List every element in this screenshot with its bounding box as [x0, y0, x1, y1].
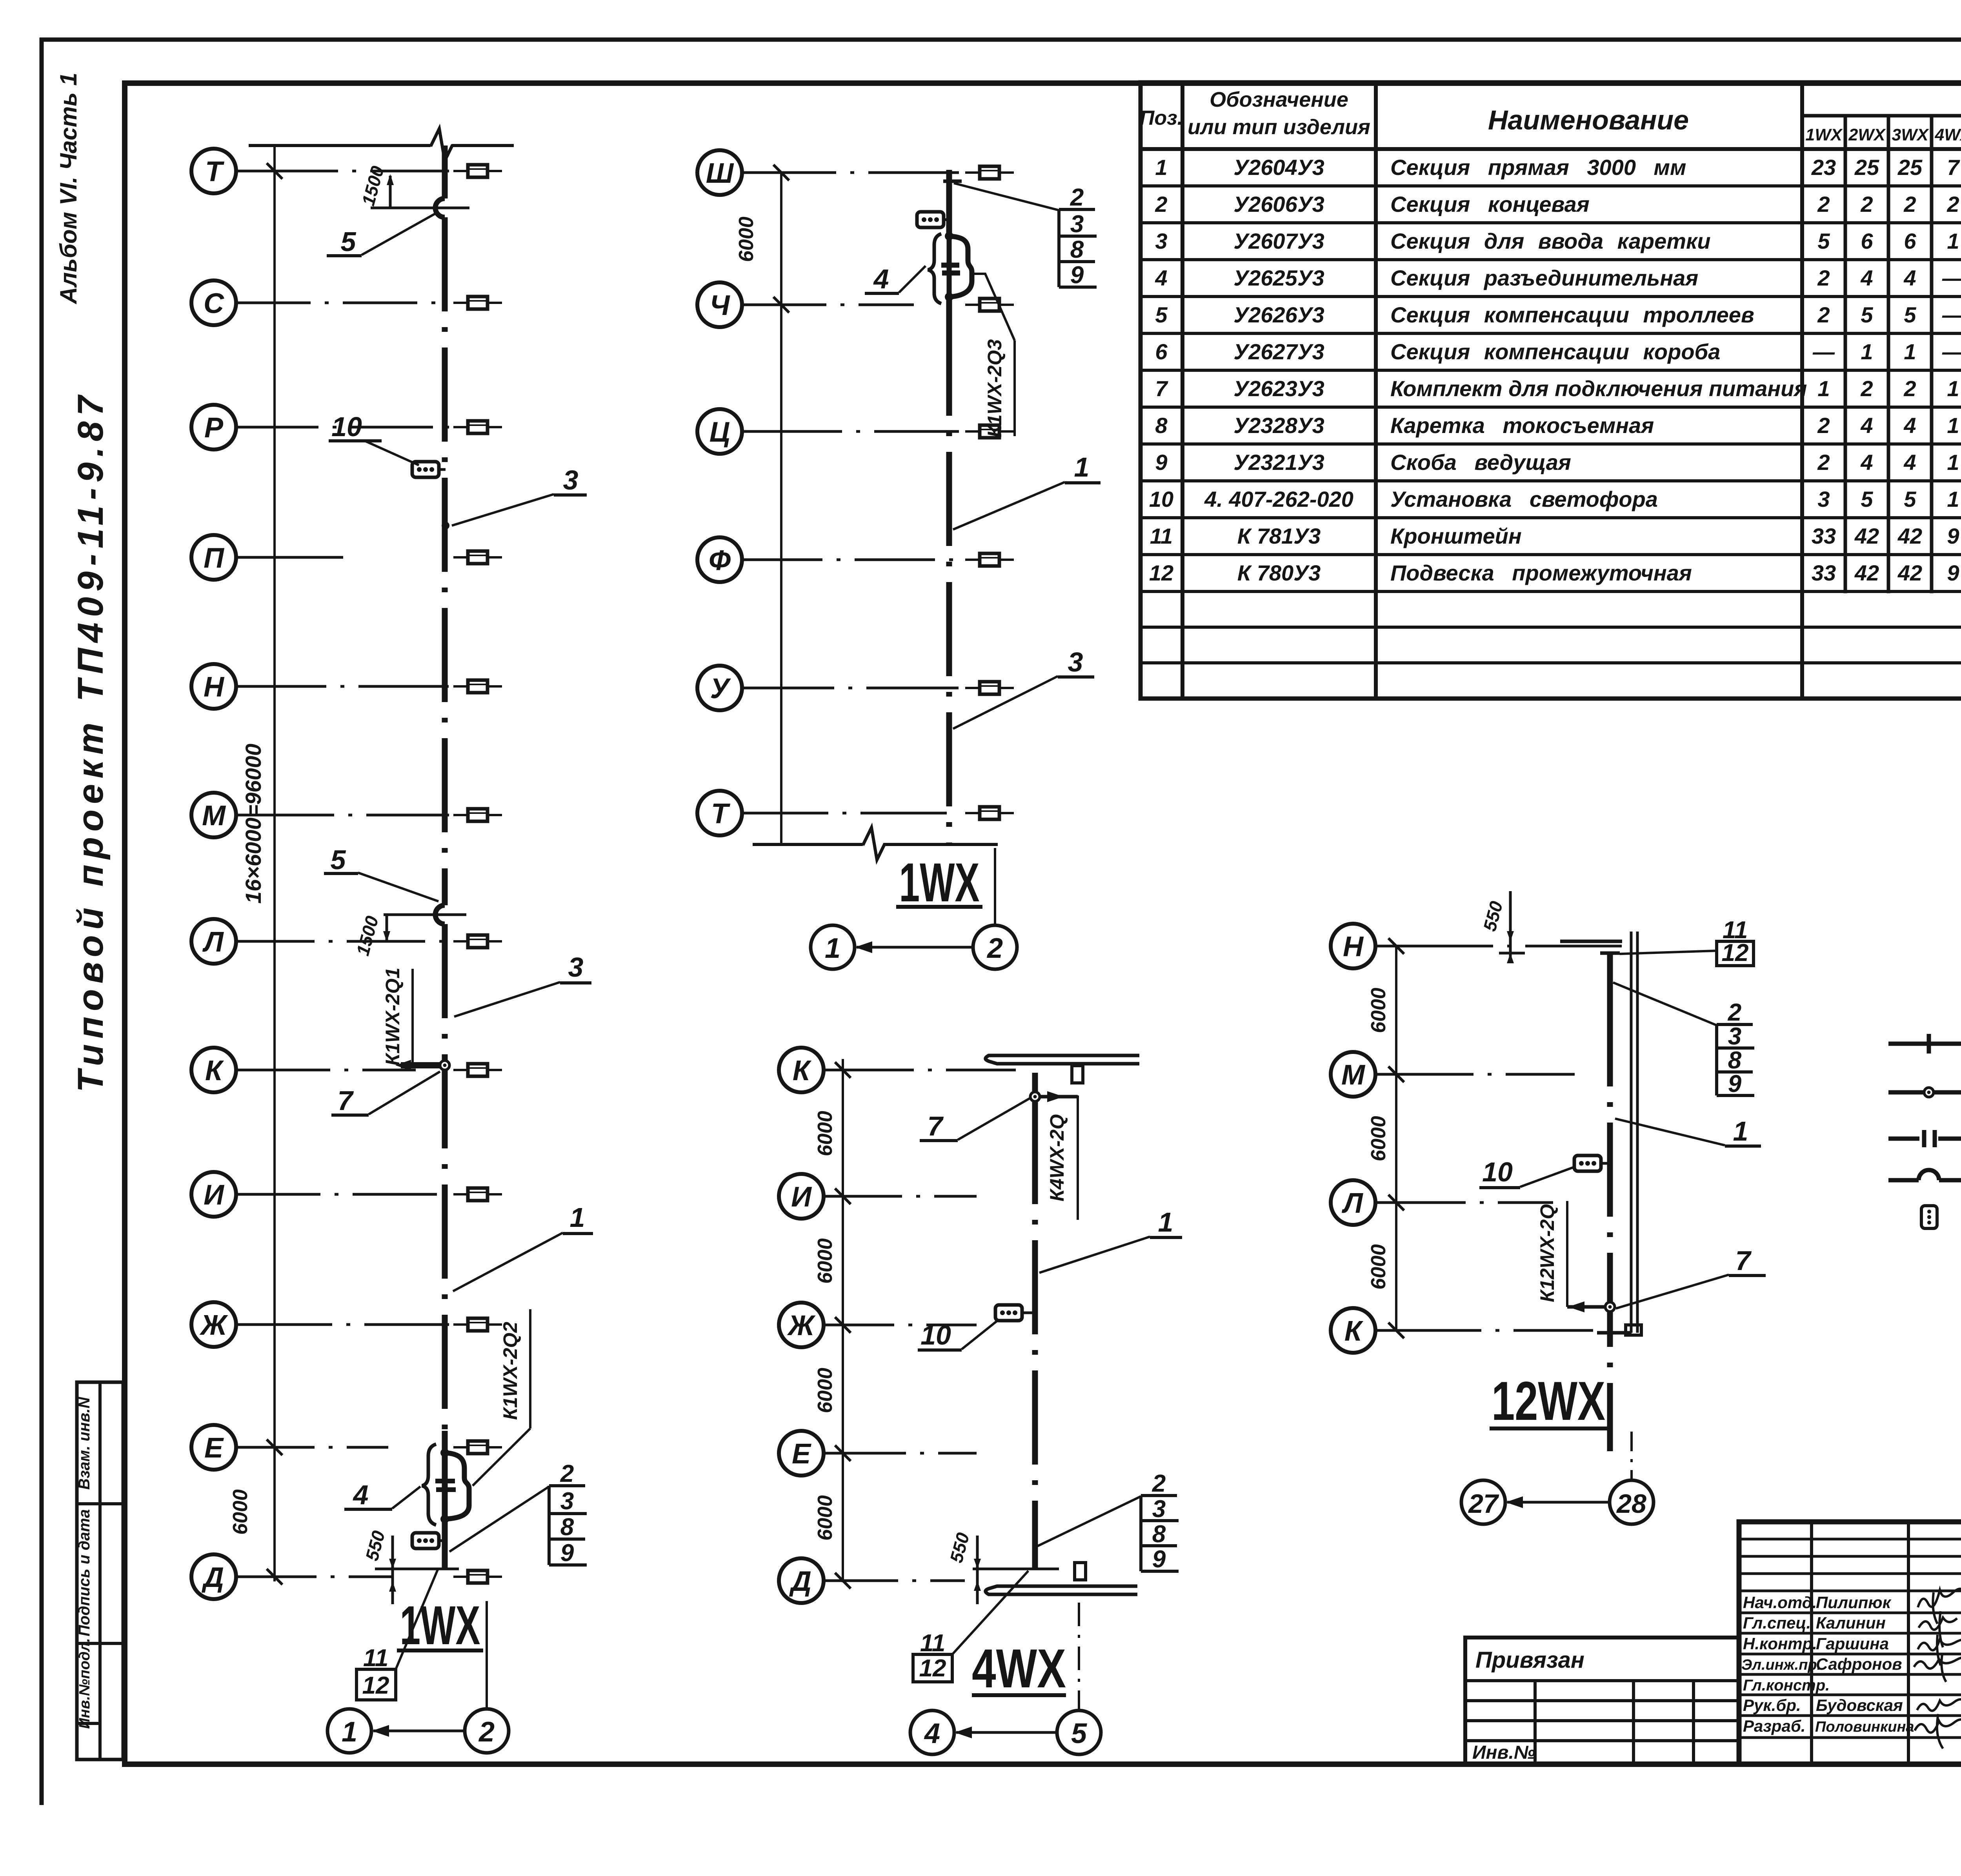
- axis circle Ts: [697, 409, 742, 454]
- axis circle F: [697, 537, 742, 582]
- dim 1500 at T: [371, 176, 469, 209]
- svg-text:Сафронов: Сафронов: [1816, 1655, 1902, 1673]
- feed bar at K: [401, 1062, 442, 1068]
- svg-text:У2627У3: У2627У3: [1233, 339, 1324, 364]
- wall column mark: [1626, 1325, 1641, 1335]
- dim ticks: [773, 165, 789, 313]
- svg-text:10: 10: [920, 1320, 951, 1350]
- svg-text:2: 2: [1728, 999, 1741, 1026]
- svg-text:Поз.: Поз.: [1140, 107, 1183, 129]
- title block outline: [1739, 1522, 1961, 1764]
- svg-text:27: 27: [1468, 1489, 1499, 1519]
- isolation joint bars: [941, 265, 960, 273]
- svg-text:4. 407-262-020: 4. 407-262-020: [1204, 487, 1353, 511]
- svg-text:5: 5: [1155, 302, 1168, 327]
- svg-text:6000: 6000: [735, 217, 758, 262]
- section arrow: [373, 1730, 464, 1732]
- crane beam top: [986, 1055, 1139, 1064]
- svg-text:4: 4: [873, 264, 889, 294]
- feeder label K4WX-2Q: [1077, 1095, 1079, 1220]
- svg-text:Д: Д: [201, 1562, 224, 1593]
- svg-text:12: 12: [919, 1655, 946, 1682]
- column grid line: [842, 1059, 844, 1582]
- axis circle Ch: [697, 282, 742, 327]
- legend bracket symbol: [1888, 1042, 1961, 1046]
- svg-text:4WX: 4WX: [972, 1638, 1066, 1699]
- top ledge line: [1560, 940, 1622, 943]
- kronstein symbols on trolley line: [453, 165, 502, 177]
- svg-text:Взам. инв.N: Взам. инв.N: [76, 1397, 93, 1490]
- column grid line: [780, 173, 782, 843]
- signature labels: [1741, 1593, 1914, 1735]
- isolation joint assembly: [945, 232, 953, 240]
- col line pos: [1181, 82, 1184, 699]
- feed point: [1605, 1302, 1615, 1312]
- section circle 5: [1057, 1710, 1101, 1754]
- svg-text:4: 4: [924, 1718, 940, 1749]
- svg-text:У: У: [710, 673, 731, 704]
- svg-text:Л: Л: [202, 926, 224, 958]
- svg-text:1: 1: [342, 1716, 357, 1748]
- svg-text:6000: 6000: [814, 1111, 837, 1156]
- svg-text:10: 10: [1482, 1157, 1513, 1187]
- svg-text:Кронштейн: Кронштейн: [1390, 524, 1522, 548]
- svg-text:Пилипюк: Пилипюк: [1816, 1593, 1892, 1612]
- section marker line: [994, 848, 996, 924]
- svg-text:10: 10: [331, 411, 362, 442]
- svg-text:Гл.спец.: Гл.спец.: [1743, 1614, 1811, 1632]
- svg-text:Подпись и дата: Подпись и дата: [76, 1509, 93, 1636]
- svg-text:9: 9: [560, 1539, 574, 1567]
- svg-text:Ш: Ш: [706, 158, 734, 189]
- svg-text:Наименование: Наименование: [1488, 105, 1689, 135]
- signature squiggles: [1918, 1589, 1961, 1624]
- svg-text:8: 8: [1070, 236, 1084, 263]
- axis row lines: [236, 171, 449, 1577]
- svg-text:Гаршина: Гаршина: [1816, 1634, 1889, 1653]
- legend traffic light symbol: [1921, 1206, 1937, 1228]
- svg-text:Инв.№подл.: Инв.№подл.: [76, 1638, 93, 1729]
- svg-text:К: К: [205, 1055, 224, 1086]
- svg-text:9: 9: [1155, 450, 1167, 475]
- svg-text:Будовская: Будовская: [1816, 1696, 1903, 1714]
- svg-text:1WX: 1WX: [400, 1594, 480, 1656]
- svg-text:Р: Р: [204, 412, 224, 444]
- svg-text:У2626У3: У2626У3: [1233, 302, 1324, 327]
- svg-text:11: 11: [920, 1630, 945, 1657]
- traffic light 10 at R: [412, 462, 439, 477]
- axis circle M: [1331, 1052, 1375, 1097]
- axis row lines: [742, 173, 959, 813]
- traffic light at E-D: [412, 1533, 439, 1548]
- svg-text:И: И: [791, 1181, 812, 1213]
- row lines: [1141, 186, 1961, 663]
- svg-text:6000: 6000: [814, 1238, 837, 1284]
- section marker line: [486, 1601, 488, 1709]
- outer scan border left: [40, 38, 44, 1805]
- end bar: [943, 180, 962, 183]
- svg-text:6000: 6000: [1367, 988, 1390, 1033]
- svg-text:К1WX-2Q1: К1WX-2Q1: [382, 968, 404, 1066]
- wall double line: [1631, 932, 1637, 1333]
- axis row lines: [1375, 946, 1622, 1330]
- position stack 11-12: [357, 1570, 438, 1700]
- dim ticks: [835, 1062, 851, 1589]
- axis circle P: [191, 535, 236, 580]
- svg-text:Т: Т: [711, 798, 731, 830]
- svg-text:Ч: Ч: [710, 290, 731, 321]
- svg-text:Рук.бр.: Рук.бр.: [1743, 1696, 1801, 1714]
- svg-text:Подвеска промежуточная: Подвеска промежуточная: [1390, 560, 1692, 585]
- svg-text:9: 9: [1070, 262, 1084, 289]
- svg-text:Скоба ведущая: Скоба ведущая: [1390, 450, 1571, 475]
- svg-text:2: 2: [1070, 184, 1084, 211]
- compensation section 5 (top): [435, 198, 445, 217]
- svg-text:3: 3: [568, 952, 584, 983]
- svg-text:3: 3: [563, 465, 578, 495]
- section arrow: [956, 1731, 1057, 1734]
- isolation joint bars: [435, 1481, 456, 1490]
- svg-text:Секция концевая: Секция концевая: [1390, 192, 1590, 217]
- node dot: [442, 522, 449, 530]
- svg-text:Эл.инж.пр.: Эл.инж.пр.: [1741, 1657, 1821, 1673]
- axis circle S: [191, 280, 236, 325]
- svg-text:Н: Н: [1343, 931, 1364, 963]
- axis circle I: [191, 1172, 236, 1217]
- axis circle E: [779, 1431, 824, 1476]
- svg-text:9: 9: [1728, 1070, 1742, 1097]
- svg-text:У2604У3: У2604У3: [1233, 155, 1324, 180]
- svg-text:1: 1: [825, 933, 840, 964]
- svg-text:8: 8: [1152, 1521, 1166, 1548]
- margin strip divider vertical: [98, 1382, 102, 1760]
- svg-text:7: 7: [338, 1085, 354, 1116]
- margin strip divider 2: [77, 1642, 123, 1645]
- svg-text:2: 2: [478, 1716, 495, 1748]
- section circle 4: [910, 1710, 954, 1754]
- svg-text:У2328У3: У2328У3: [1233, 413, 1324, 438]
- crane beam bottom: [986, 1586, 1137, 1594]
- svg-text:12: 12: [1149, 560, 1173, 585]
- svg-text:Д: Д: [789, 1566, 811, 1597]
- axis circle L: [1331, 1180, 1375, 1225]
- axis circle R: [191, 405, 236, 449]
- svg-text:4: 4: [1155, 266, 1167, 290]
- svg-text:3: 3: [1068, 647, 1083, 677]
- position stack 2-3-8-9: [954, 183, 1097, 289]
- svg-text:7: 7: [1155, 376, 1168, 401]
- header texts: [1140, 84, 1961, 144]
- section circle 2: [465, 1709, 509, 1753]
- svg-text:12: 12: [362, 1672, 389, 1699]
- svg-text:Разраб.: Разраб.: [1743, 1717, 1806, 1735]
- margin strip divider 3: [77, 1722, 100, 1725]
- dim 1500 at L: [384, 915, 466, 941]
- svg-text:6000: 6000: [1367, 1116, 1390, 1161]
- axis circle N: [1331, 924, 1375, 968]
- svg-text:3: 3: [1070, 211, 1084, 238]
- position stack 2-3-8-9: [1613, 983, 1754, 1097]
- svg-text:3: 3: [1728, 1023, 1741, 1050]
- position stack 11-12: [913, 1571, 1028, 1682]
- header line under kolichestvo: [1802, 114, 1961, 118]
- svg-text:6000: 6000: [229, 1489, 252, 1535]
- svg-text:Установка светофора: Установка светофора: [1390, 487, 1658, 511]
- col line naimenovanie: [1800, 82, 1804, 699]
- svg-text:У2623У3: У2623У3: [1233, 376, 1324, 401]
- svg-text:Инв.№: Инв.№: [1472, 1742, 1535, 1763]
- svg-text:1: 1: [570, 1202, 585, 1233]
- section circle 1: [811, 925, 855, 969]
- svg-text:К 780У3: К 780У3: [1237, 560, 1321, 585]
- traffic light 10: [995, 1305, 1022, 1321]
- svg-text:У2607У3: У2607У3: [1233, 229, 1324, 253]
- svg-text:1: 1: [1074, 452, 1090, 482]
- top wall line with break: [249, 129, 514, 161]
- column mark bottom: [1075, 1563, 1086, 1580]
- column mark top: [1072, 1066, 1083, 1083]
- svg-text:12WX: 12WX: [1492, 1370, 1605, 1432]
- table outline: [1141, 82, 1961, 699]
- svg-text:2: 2: [1152, 1470, 1166, 1497]
- svg-text:У2321У3: У2321У3: [1233, 450, 1324, 475]
- svg-text:8: 8: [1728, 1047, 1742, 1074]
- svg-text:Ц: Ц: [709, 417, 730, 448]
- section arrow: [857, 946, 973, 949]
- svg-text:3: 3: [1152, 1496, 1166, 1523]
- svg-text:С: С: [204, 288, 224, 319]
- header line under wx labels: [1141, 147, 1961, 151]
- col line oboznachenie: [1374, 82, 1378, 699]
- svg-text:1WX: 1WX: [899, 852, 980, 913]
- outer scan border top: [40, 38, 1961, 42]
- trolley line 4WX: [1032, 1073, 1038, 1110]
- svg-text:У2606У3: У2606У3: [1233, 192, 1324, 217]
- section marker line: [1630, 1432, 1633, 1479]
- svg-text:К12WX-2Q: К12WX-2Q: [1536, 1204, 1558, 1302]
- svg-text:К1WX-2Q3: К1WX-2Q3: [984, 339, 1006, 437]
- svg-text:16×6000=96000: 16×6000=96000: [241, 744, 266, 904]
- dim 550: [375, 1536, 459, 1604]
- axis row lines: [824, 1070, 1016, 1581]
- straight segment: [947, 236, 952, 297]
- svg-text:4: 4: [353, 1479, 369, 1510]
- margin strip divider 1: [77, 1502, 123, 1505]
- legend feed symbol: [1888, 1090, 1961, 1095]
- svg-text:6000: 6000: [814, 1368, 837, 1413]
- svg-text:8: 8: [560, 1514, 574, 1541]
- dim ticks: [1388, 938, 1404, 1338]
- axis circle Sh: [697, 150, 742, 195]
- column grid line: [1395, 946, 1397, 1330]
- section circle 28: [1610, 1480, 1654, 1524]
- compensation section 5 (middle): [435, 905, 445, 924]
- svg-text:Секция прямая 3000 мм: Секция прямая 3000 мм: [1390, 155, 1686, 180]
- svg-text:Е: Е: [792, 1438, 811, 1470]
- svg-text:Альбом VI. Часть 1: Альбом VI. Часть 1: [55, 73, 82, 304]
- wx column lines: [1845, 116, 1961, 591]
- svg-text:Секция компенсации короба: Секция компенсации короба: [1390, 339, 1720, 364]
- svg-text:5: 5: [1071, 1718, 1087, 1749]
- svg-text:28: 28: [1616, 1489, 1646, 1519]
- svg-text:Обозначение: Обозначение: [1210, 88, 1348, 111]
- svg-text:5: 5: [341, 226, 357, 257]
- kronstein symbols: [965, 166, 1014, 179]
- privyazan block: [1465, 1638, 1739, 1764]
- svg-text:5: 5: [331, 844, 346, 875]
- trolley line 1WX upper: [946, 170, 952, 236]
- svg-text:Секция для ввода каретки: Секция для ввода каретки: [1390, 229, 1711, 253]
- svg-text:Н: Н: [204, 671, 225, 703]
- feed point K: [440, 1061, 449, 1070]
- svg-text:1: 1: [1733, 1116, 1748, 1146]
- svg-text:1: 1: [1158, 1207, 1173, 1237]
- data rows: [1149, 155, 1961, 585]
- isolation joint assembly at E: [440, 1448, 449, 1457]
- section arrow: [1507, 1501, 1609, 1504]
- axis circle K: [191, 1048, 236, 1092]
- axis circle D: [191, 1554, 236, 1599]
- svg-text:Н.контр.: Н.контр.: [1743, 1634, 1817, 1653]
- dim 550: [973, 1536, 1059, 1604]
- svg-text:К1WX-2Q2: К1WX-2Q2: [499, 1322, 521, 1420]
- svg-text:Комплект для подключения питан: Комплект для подключения питания: [1390, 376, 1807, 401]
- svg-text:У2625У3: У2625У3: [1233, 266, 1324, 290]
- dim 550 top: [1499, 891, 1525, 962]
- svg-text:Секция компенсации троллеев: Секция компенсации троллеев: [1390, 302, 1754, 327]
- svg-text:1: 1: [1155, 155, 1167, 180]
- legend compensation symbol: [1888, 1178, 1961, 1183]
- svg-text:6000: 6000: [814, 1495, 837, 1541]
- axis circle D: [779, 1558, 824, 1603]
- svg-text:Привязан: Привязан: [1475, 1647, 1584, 1673]
- svg-text:2: 2: [986, 933, 1003, 964]
- axis circle L: [191, 919, 236, 964]
- svg-text:Половинкина: Половинкина: [1815, 1719, 1914, 1735]
- svg-text:3: 3: [1155, 229, 1167, 253]
- svg-text:11: 11: [1150, 524, 1173, 548]
- bypass loop: [445, 1453, 469, 1519]
- axis circle K: [1331, 1308, 1375, 1353]
- svg-text:10: 10: [1149, 487, 1173, 511]
- axis circle I: [779, 1174, 824, 1219]
- dim ticks on grid line: [267, 163, 282, 1585]
- svg-text:Гл.констр.: Гл.констр.: [1743, 1677, 1830, 1694]
- position stack 2-3-8-9: [449, 1460, 587, 1567]
- bypass loop: [949, 236, 972, 297]
- svg-text:1WX2WX3WX4WX5WX6WX7WX8WX9WX10W: 1WX2WX3WX4WX5WX6WX7WX8WX9WX10WX11WX12WX1…: [1805, 126, 1961, 144]
- axis circle M: [191, 793, 236, 837]
- axis circle U: [697, 666, 742, 710]
- section circle 1: [327, 1709, 371, 1753]
- svg-text:3: 3: [560, 1488, 574, 1515]
- svg-text:П: П: [204, 542, 225, 574]
- axis circle N: [191, 664, 236, 709]
- svg-text:Каретка токосъемная: Каретка токосъемная: [1390, 413, 1654, 438]
- section marker line: [1078, 1603, 1080, 1709]
- svg-text:Ф: Ф: [709, 545, 731, 576]
- svg-text:Нач.отд.: Нач.отд.: [1743, 1593, 1817, 1612]
- svg-text:11: 11: [363, 1645, 388, 1672]
- svg-text:Калинин: Калинин: [1816, 1614, 1886, 1632]
- svg-text:2: 2: [560, 1460, 574, 1487]
- svg-text:8: 8: [1155, 413, 1168, 438]
- svg-text:или тип изделия: или тип изделия: [1188, 115, 1370, 139]
- svg-text:Л: Л: [1341, 1188, 1363, 1219]
- axis circle T: [191, 149, 236, 193]
- axis circle T2: [697, 791, 742, 835]
- svg-text:12: 12: [1722, 939, 1749, 966]
- section circle 27: [1461, 1480, 1505, 1524]
- position stack 11-12 top: [1620, 917, 1754, 966]
- feed point: [1030, 1092, 1040, 1101]
- legend isolation joint symbol: [1888, 1137, 1961, 1141]
- svg-text:М: М: [1341, 1059, 1366, 1091]
- svg-text:И: И: [204, 1179, 225, 1211]
- svg-text:Ж: Ж: [199, 1310, 228, 1341]
- trolley line 12WX: [1600, 952, 1620, 955]
- svg-text:Ж: Ж: [787, 1310, 816, 1341]
- position stack 2-3-8-9: [1037, 1470, 1179, 1573]
- traffic light 10: [1574, 1155, 1601, 1171]
- svg-text:7: 7: [1735, 1245, 1752, 1276]
- bottom ledge line: [1597, 1331, 1632, 1335]
- svg-text:Типовой проект ТП409-11-9.87: Типовой проект ТП409-11-9.87: [71, 390, 111, 1092]
- svg-text:7: 7: [928, 1111, 944, 1141]
- column grid line: [273, 146, 276, 1581]
- svg-text:К: К: [793, 1055, 812, 1086]
- svg-text:К: К: [1344, 1316, 1364, 1347]
- svg-text:К4WX-2Q: К4WX-2Q: [1046, 1114, 1068, 1202]
- brace: [928, 234, 941, 304]
- svg-text:6: 6: [1155, 339, 1168, 364]
- axis circle Zh: [779, 1303, 824, 1347]
- svg-text:М: М: [202, 800, 226, 832]
- svg-text:Т: Т: [205, 156, 225, 187]
- svg-text:2: 2: [1155, 192, 1167, 217]
- svg-text:Секция разъединительная: Секция разъединительная: [1390, 266, 1698, 290]
- trolley line 1WX: [442, 146, 448, 198]
- section circle 2: [973, 925, 1017, 969]
- brace: [422, 1444, 436, 1525]
- axis circle Zh: [191, 1302, 236, 1347]
- axis circle E: [191, 1425, 236, 1470]
- margin strip box: [77, 1382, 123, 1760]
- traffic light at Sh-Ch: [917, 212, 944, 227]
- signature table: [1812, 1522, 1961, 1764]
- axis circle K: [779, 1048, 824, 1092]
- svg-text:6000: 6000: [1367, 1244, 1390, 1290]
- svg-text:Е: Е: [204, 1432, 224, 1464]
- svg-text:9: 9: [1152, 1546, 1166, 1573]
- bottom wall line with break: [753, 828, 998, 860]
- svg-text:К 781У3: К 781У3: [1237, 524, 1321, 548]
